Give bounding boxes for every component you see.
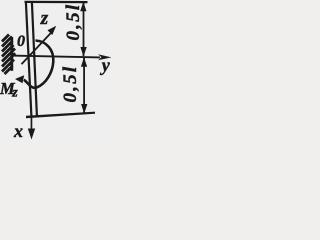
svg-text:0: 0 [17, 33, 25, 50]
svg-text:0,5l: 0,5l [60, 65, 81, 103]
svg-text:z: z [11, 86, 18, 101]
svg-text:y: y [100, 55, 111, 75]
svg-text:0,5l: 0,5l [63, 3, 84, 41]
svg-text:x: x [13, 121, 23, 141]
svg-text:z: z [40, 8, 49, 29]
